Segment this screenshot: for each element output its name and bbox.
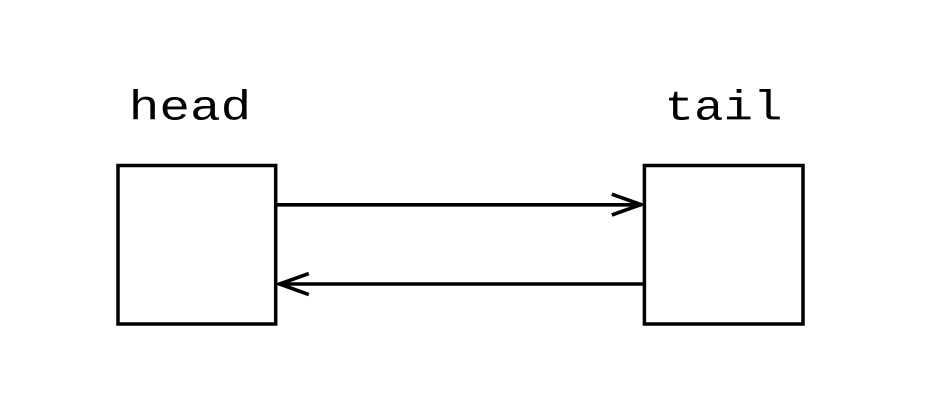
arrowhead forward link (points right into tail box) bbox=[612, 194, 641, 215]
wire head to tail (forward link) bbox=[276, 203, 641, 207]
arrowhead back link (points left into head box) bbox=[280, 274, 309, 295]
node tail box bbox=[644, 166, 803, 325]
svg-text:head: head bbox=[129, 85, 251, 133]
wire tail to head (back link) bbox=[280, 282, 644, 286]
svg-text:tail: tail bbox=[665, 85, 783, 133]
node head box bbox=[118, 166, 276, 325]
